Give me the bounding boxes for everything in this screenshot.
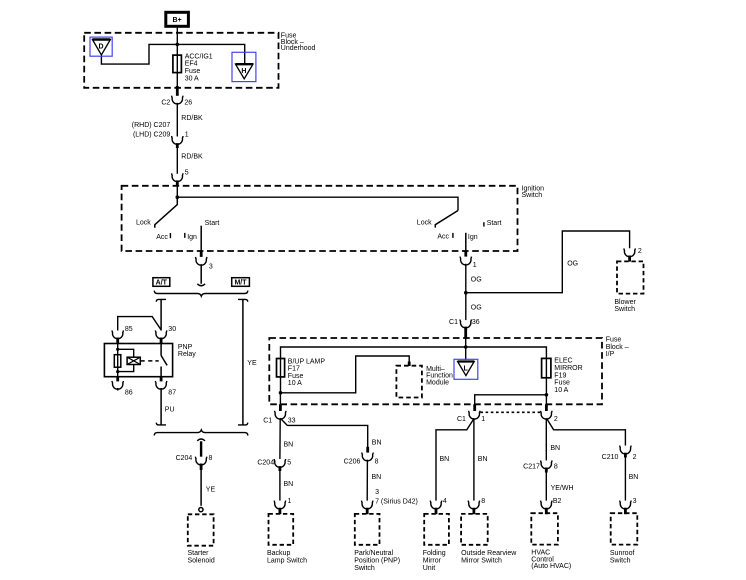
svg-text:Block –: Block – <box>606 344 629 351</box>
connector C207/C209 pin 1 <box>172 136 183 144</box>
svg-text:Lock: Lock <box>417 220 432 227</box>
svg-text:B2: B2 <box>553 498 562 505</box>
svg-text:30 A: 30 A <box>185 75 199 82</box>
connector C204 pin 5 <box>274 459 285 467</box>
wire: pin 2 to C210 pin 2 <box>547 418 626 445</box>
svg-text:86: 86 <box>125 389 133 396</box>
svg-text:Solenoid: Solenoid <box>188 557 215 564</box>
relay pin 30 <box>155 330 166 338</box>
svg-text:Unit: Unit <box>423 565 436 572</box>
svg-text:Switch: Switch <box>610 558 631 565</box>
relay switch contact <box>160 344 162 356</box>
left switch output wire to pin 3 <box>200 226 202 252</box>
svg-text:MIRROR: MIRROR <box>554 365 582 372</box>
connector folding mirror pin 4 <box>430 501 441 509</box>
terminal tick Acc (right) <box>452 233 454 238</box>
relay pin 87 <box>160 377 163 382</box>
label box M/T <box>232 278 250 287</box>
svg-text:C1: C1 <box>263 417 272 424</box>
svg-text:Underhood: Underhood <box>281 45 316 52</box>
right switch Ign output wire to pin 1 <box>465 233 467 252</box>
wire BN: C1 1 to folding mirror unit <box>436 418 474 500</box>
wire: junction to C1 pin 1 <box>475 395 547 405</box>
svg-text:M/T: M/T <box>234 280 247 287</box>
svg-text:Fuse: Fuse <box>554 380 570 387</box>
svg-text:2: 2 <box>554 416 558 423</box>
svg-text:Module: Module <box>426 379 449 386</box>
starter solenoid (dashed box) <box>188 514 214 545</box>
label: Fuse Block - I/P <box>606 337 629 358</box>
A/T branch top tick <box>156 299 166 301</box>
svg-text:Fuse: Fuse <box>288 373 304 380</box>
svg-text:Start: Start <box>487 220 502 227</box>
connector C2 pin 26 <box>172 96 183 104</box>
svg-text:3: 3 <box>375 489 379 496</box>
svg-text:7 (Sirius D42): 7 (Sirius D42) <box>375 499 418 506</box>
stem into connector C2 <box>176 86 179 96</box>
wire OG: pin 1 down to C1 pin 36 <box>465 264 467 320</box>
svg-text:YE: YE <box>206 487 216 494</box>
svg-text:85: 85 <box>125 326 133 333</box>
fuse ELEC MIRROR F19 10 A <box>545 358 547 395</box>
connector C204 pin 8 <box>195 457 206 465</box>
svg-text:C210: C210 <box>602 454 619 461</box>
node: bus junction <box>464 345 468 349</box>
node: fuse output junction <box>279 391 283 395</box>
wire: C1 33 to C206 pin 8 <box>280 418 367 447</box>
svg-text:Folding: Folding <box>423 550 446 557</box>
connector blower switch pin 2 <box>624 248 635 256</box>
svg-text:Switch: Switch <box>522 192 543 199</box>
svg-text:33: 33 <box>288 417 296 424</box>
stem pin 2 <box>545 404 548 411</box>
svg-text:1: 1 <box>481 416 485 423</box>
connector pin 2 <box>541 411 552 419</box>
svg-text:Sunroof: Sunroof <box>610 550 635 557</box>
svg-text:C1: C1 <box>449 319 458 326</box>
wire OG: junction to blower switch <box>466 231 630 293</box>
svg-text:Switch: Switch <box>614 306 635 313</box>
svg-text:Ign: Ign <box>187 234 197 241</box>
fuse B/UP LAMP F17 10 A <box>280 358 282 393</box>
node: mirror fuse junction <box>545 393 549 397</box>
wire YE/WH: C217 to HVAC control <box>545 472 547 501</box>
svg-text:2: 2 <box>633 454 637 461</box>
wire: fuse to multi-function module <box>281 356 410 393</box>
svg-text:Lamp Switch: Lamp Switch <box>267 558 307 565</box>
wire BN: C204 5 to backup lamp switch <box>279 471 281 501</box>
svg-text:26: 26 <box>184 100 192 107</box>
connector C206 pin 8 <box>366 447 369 453</box>
fuse block underhood (dashed box) <box>84 33 278 88</box>
svg-text:Switch: Switch <box>354 565 375 572</box>
svg-text:36: 36 <box>472 319 480 326</box>
HVAC control (dashed box) <box>531 513 558 544</box>
svg-text:Mirror Switch: Mirror Switch <box>461 558 502 565</box>
terminal tick Start (right) <box>483 222 485 226</box>
svg-text:OG: OG <box>471 305 482 312</box>
svg-text:A/T: A/T <box>156 280 168 287</box>
PNP relay box <box>104 344 172 377</box>
svg-text:Ign: Ign <box>468 234 478 241</box>
svg-text:C1: C1 <box>457 416 466 423</box>
A/T branch bottom tick <box>156 423 166 425</box>
power symbol L (I/P) <box>454 359 478 379</box>
svg-text:BN: BN <box>284 481 294 488</box>
svg-text:PNP: PNP <box>178 344 193 351</box>
connector outside mirror pin 8 <box>468 501 479 509</box>
svg-text:BN: BN <box>372 439 382 446</box>
svg-text:BN: BN <box>372 474 382 481</box>
label: Fuse Block - Underhood <box>281 32 316 52</box>
svg-text:PU: PU <box>165 406 175 413</box>
connector C1 pin 1 <box>469 411 480 419</box>
svg-text:C204: C204 <box>176 455 193 462</box>
folding mirror unit (dashed box) <box>424 514 449 545</box>
wire YE: M/T branch <box>242 299 244 425</box>
svg-text:Acc: Acc <box>437 233 449 240</box>
svg-text:C204: C204 <box>257 459 274 466</box>
connector C217 pin 8 <box>541 460 552 468</box>
svg-text:8: 8 <box>375 458 379 465</box>
wire: I/P feed bus <box>281 347 547 359</box>
svg-text:YE/WH: YE/WH <box>551 485 574 492</box>
wire BN: pin 2 to C217 pin 8 <box>545 418 547 460</box>
label: Ignition Switch <box>522 185 545 199</box>
node: B+ bus junction <box>176 43 180 47</box>
M/T branch top tick <box>238 299 248 301</box>
svg-text:ACC/IG1: ACC/IG1 <box>185 53 213 60</box>
merge brace <box>154 430 248 436</box>
svg-text:(Auto HVAC): (Auto HVAC) <box>531 563 571 570</box>
svg-text:L: L <box>463 365 468 372</box>
svg-text:B/UP LAMP: B/UP LAMP <box>288 358 326 365</box>
svg-text:Fuse: Fuse <box>606 337 622 344</box>
svg-text:Backup: Backup <box>267 550 290 557</box>
connector backup lamp switch pin 1 <box>274 501 285 509</box>
connector C210 pin 2 <box>620 446 631 454</box>
svg-text:Mirror: Mirror <box>423 558 442 565</box>
svg-text:2: 2 <box>638 248 642 255</box>
dotted link between pin 1 and pin 2 <box>480 411 540 413</box>
coil crossed box <box>127 357 140 364</box>
svg-text:BN: BN <box>440 456 450 463</box>
wire BN: C1 33 to C204 pin 5 <box>279 418 281 459</box>
coil element <box>114 355 121 368</box>
svg-text:Park/Neutral: Park/Neutral <box>354 550 393 557</box>
svg-text:H: H <box>241 68 246 75</box>
wire BN: C1 1 to outside rearview mirror switch <box>473 418 475 500</box>
wire: bus to power symbols D and H <box>101 44 244 64</box>
terminal tick Acc (left) <box>169 233 171 238</box>
connector HVAC pin B2 <box>541 501 552 509</box>
wire RD/BK: connector to ignition switch pin 5 <box>176 148 178 174</box>
node: coil top <box>116 348 119 351</box>
svg-text:5: 5 <box>185 169 189 176</box>
power symbol H (underhood) <box>232 52 256 81</box>
wire RD/BK: C2 to C207/C209 <box>176 103 178 137</box>
right ignition switch wiper (Lock) <box>435 211 458 228</box>
wire: A/T branch to relay pin 30 <box>160 299 162 330</box>
wire BN: C206 to PNP switch <box>366 460 368 501</box>
svg-text:30: 30 <box>168 326 176 333</box>
svg-text:BN: BN <box>478 456 488 463</box>
svg-text:EF4: EF4 <box>185 61 198 68</box>
svg-text:BN: BN <box>629 474 639 481</box>
relay coil branch (pin 85 to 86) <box>117 344 119 377</box>
wire PU: relay pin 87 down <box>160 388 162 425</box>
M/T branch bottom tick <box>238 423 248 425</box>
svg-text:10 A: 10 A <box>288 380 302 387</box>
wire: junction to pin 2 <box>545 395 547 405</box>
svg-text:C206: C206 <box>344 458 361 465</box>
connector pin 3 <box>196 257 207 265</box>
svg-text:10 A: 10 A <box>554 387 568 394</box>
ring terminal at starter solenoid <box>199 508 203 512</box>
svg-text:F19: F19 <box>554 372 566 379</box>
svg-text:B+: B+ <box>173 17 182 24</box>
node: OG junction to blower <box>464 291 468 295</box>
svg-text:(RHD) C207: (RHD) C207 <box>132 122 171 129</box>
outside rearview mirror switch (dashed box) <box>461 514 488 545</box>
wire: B+ down through ACC/IG1 fuse to C2 <box>176 26 178 86</box>
svg-text:C217: C217 <box>523 464 540 471</box>
wire: merge to C204 pin 8 <box>200 441 202 456</box>
svg-text:RD/BK: RD/BK <box>181 154 203 161</box>
coil actuator link <box>140 360 144 362</box>
backup lamp switch (dashed box) <box>269 514 294 545</box>
svg-text:Lock: Lock <box>136 220 151 227</box>
svg-text:I/P: I/P <box>606 351 615 358</box>
svg-text:Fuse: Fuse <box>185 68 201 75</box>
svg-text:Outside Rearview: Outside Rearview <box>461 550 517 557</box>
svg-text:8: 8 <box>481 498 485 505</box>
wire: ignition feed bus <box>177 186 458 211</box>
connector sunroof switch pin 3 <box>620 501 631 509</box>
svg-text:3: 3 <box>209 263 213 270</box>
wire: bus to power symbol L <box>465 347 467 360</box>
connector C1 pin 33 <box>275 411 286 419</box>
svg-text:ELEC: ELEC <box>554 358 572 365</box>
svg-text:Position (PNP): Position (PNP) <box>354 558 400 565</box>
svg-text:4: 4 <box>443 498 447 505</box>
svg-text:YE: YE <box>247 360 257 367</box>
fuse block I/P (dashed box) <box>269 338 602 404</box>
power symbol D (underhood) <box>90 37 112 56</box>
left ignition switch wiper (Lock) <box>155 197 178 228</box>
svg-text:Acc: Acc <box>156 234 168 241</box>
svg-text:Blower: Blower <box>614 299 636 306</box>
wire BN: C210 to sunroof switch <box>624 457 626 501</box>
svg-text:OG: OG <box>567 260 578 267</box>
svg-text:F17: F17 <box>288 366 300 373</box>
relay pin 86 <box>116 377 119 382</box>
fuse ACC/IG1 EF4 30 A <box>173 55 182 73</box>
stem C1 pin 1 <box>473 404 476 411</box>
label box A/T <box>153 278 170 287</box>
battery feed B+ <box>166 12 189 26</box>
svg-text:8: 8 <box>209 455 213 462</box>
wire: C1 36 into bus <box>465 339 467 348</box>
svg-text:1: 1 <box>288 498 292 505</box>
stem C1 pin 33 <box>279 393 281 404</box>
svg-text:1: 1 <box>473 262 477 269</box>
wire: pin 3 down to A/T-M/T split <box>200 264 202 284</box>
terminal tick Ign (left) <box>184 233 186 238</box>
wire YE: C204 to starter solenoid <box>200 464 203 471</box>
svg-text:RD/BK: RD/BK <box>181 115 203 122</box>
relay pin 85 <box>112 330 123 338</box>
ignition switch (dashed box) <box>122 186 518 251</box>
svg-text:BN: BN <box>284 442 294 449</box>
wire: branch to relay pin 85 <box>118 317 161 331</box>
svg-text:Relay: Relay <box>178 351 196 358</box>
multi-function module (dashed box) <box>396 366 422 398</box>
svg-text:3: 3 <box>633 498 637 505</box>
split end arc <box>197 284 205 286</box>
split brace <box>154 291 248 297</box>
svg-text:1: 1 <box>185 132 189 139</box>
blower switch (dashed box) <box>617 261 644 293</box>
svg-text:OG: OG <box>471 277 482 284</box>
node: coil bottom <box>116 370 119 373</box>
merge start arc <box>197 439 205 441</box>
node: ignition feed junction <box>176 195 180 199</box>
svg-text:5: 5 <box>287 459 291 466</box>
sunroof switch (dashed box) <box>611 513 638 544</box>
park/neutral position switch (dashed box) <box>355 514 380 545</box>
connector pin 1 (ignition switch) <box>460 257 471 265</box>
svg-text:BN: BN <box>550 445 560 452</box>
svg-text:87: 87 <box>168 389 176 396</box>
svg-text:(LHD) C209: (LHD) C209 <box>133 132 170 139</box>
svg-text:8: 8 <box>554 464 558 471</box>
connector pin 5 (ignition switch) <box>172 173 183 181</box>
connector PNP switch pin 3 <box>362 501 373 509</box>
coil parallel branch <box>118 349 134 371</box>
svg-text:D: D <box>98 43 103 50</box>
svg-text:Starter: Starter <box>188 550 210 557</box>
svg-text:Start: Start <box>205 220 220 227</box>
svg-text:C2: C2 <box>161 100 170 107</box>
